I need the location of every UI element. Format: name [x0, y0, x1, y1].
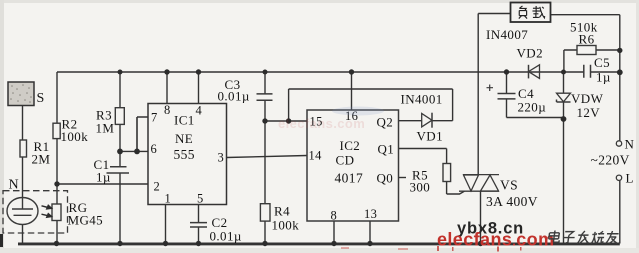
wire Q2 to VD1 — [399, 120, 453, 122]
wire pin8 stub — [166, 72, 168, 104]
wire pin2 line — [57, 183, 148, 185]
wire R3/C1 chain — [119, 72, 121, 244]
red specks — [341, 246, 522, 252]
wire pin4 stub — [198, 72, 200, 104]
svg-text:6: 6 — [151, 142, 158, 156]
svg-text:IC2: IC2 — [340, 138, 361, 153]
svg-text:0.01µ: 0.01µ — [210, 229, 242, 244]
glyph 友 — [606, 231, 619, 244]
svg-text:C5: C5 — [594, 55, 610, 70]
svg-text:N: N — [625, 137, 635, 152]
svg-text:1: 1 — [165, 192, 172, 206]
svg-text:1µ: 1µ — [96, 170, 111, 185]
svg-text:3A 400V: 3A 400V — [486, 194, 538, 209]
faint middle watermark — [278, 116, 365, 131]
svg-text:4: 4 — [196, 104, 203, 118]
wire Q1 to R5 to gate — [399, 149, 465, 195]
wire pin6 stub — [120, 150, 148, 152]
diode VD2 IN4007 — [486, 27, 543, 78]
svg-text:VD1: VD1 — [417, 129, 443, 144]
resistor R2 — [53, 117, 88, 145]
glyph 电 — [548, 231, 560, 243]
triac VS — [459, 175, 538, 209]
zener VDW 12V — [557, 91, 604, 120]
svg-text:NE: NE — [175, 131, 193, 146]
svg-text:IC1: IC1 — [174, 113, 195, 128]
lamp (light source) — [7, 198, 38, 225]
sensor S — [8, 82, 45, 106]
svg-text:elecfans.com: elecfans.com — [437, 230, 554, 250]
resistor R5 — [410, 164, 451, 195]
wire left branch R2/RG — [56, 72, 58, 244]
svg-text:0.01µ: 0.01µ — [218, 89, 250, 104]
glyph 烧 — [591, 231, 605, 243]
svg-text:8: 8 — [331, 209, 338, 223]
resistor R4 — [260, 204, 299, 233]
photoresistor RG MG45 — [42, 200, 104, 228]
op-amp/timer IC1 NE555 — [148, 103, 227, 206]
load box 负载 — [511, 3, 551, 23]
wire load left / triac top — [478, 14, 510, 175]
wire pin7 link — [137, 117, 148, 151]
svg-text:8: 8 — [164, 103, 171, 117]
svg-text:CD: CD — [336, 153, 355, 168]
svg-text:4017: 4017 — [335, 171, 364, 186]
wire S/R1/lamp chain — [22, 106, 24, 244]
wire C3/R4 chain — [264, 72, 266, 244]
wire pin5/C2 chain — [198, 205, 200, 244]
svg-text:300: 300 — [410, 180, 431, 195]
wire top rail — [57, 71, 620, 73]
svg-text:Q0: Q0 — [377, 171, 394, 186]
capacitor C1 — [94, 157, 130, 185]
glyph 发 — [577, 231, 590, 244]
svg-text:2M: 2M — [32, 152, 51, 167]
svg-text:3: 3 — [218, 151, 225, 165]
watermark 电子发烧友 (drawn glyphs) — [548, 231, 619, 244]
wire VDW chain — [563, 72, 565, 244]
wire IC2 pin13 stub — [369, 221, 371, 244]
wire reset loop — [289, 89, 453, 121]
resistor R1 — [20, 139, 50, 167]
svg-text:13: 13 — [364, 207, 377, 221]
capacitor C2 — [190, 215, 242, 244]
glyph 子 — [562, 232, 575, 243]
dashed box N — [3, 178, 68, 234]
wire pin3 to pin14 — [227, 156, 308, 158]
svg-text:5: 5 — [197, 192, 204, 206]
wire R6 branch — [564, 50, 620, 72]
svg-text:S: S — [37, 91, 45, 106]
wire bottom rail — [18, 242, 620, 245]
wire C4 chain — [507, 72, 564, 118]
wire load right — [551, 14, 620, 16]
svg-text:14: 14 — [309, 149, 323, 163]
wire pin1 stub — [165, 205, 167, 244]
capacitor C5 — [584, 55, 611, 85]
svg-text:VDW: VDW — [571, 91, 604, 106]
glyph 载 — [532, 6, 544, 18]
svg-text:12V: 12V — [577, 105, 601, 120]
svg-text:2: 2 — [154, 180, 161, 194]
svg-text:MG45: MG45 — [68, 213, 104, 228]
wire right rail — [619, 15, 621, 244]
wire pin15 line — [265, 120, 307, 122]
terminal N — [616, 137, 634, 152]
svg-text:Q2: Q2 — [377, 115, 394, 130]
svg-text:elecfans.com: elecfans.com — [278, 116, 365, 131]
svg-text:IN4007: IN4007 — [486, 27, 528, 42]
glyph 负 — [519, 6, 527, 19]
svg-text:555: 555 — [174, 147, 195, 162]
svg-text:IN4001: IN4001 — [401, 92, 443, 107]
svg-text:Q1: Q1 — [378, 142, 395, 157]
svg-text:VS: VS — [500, 178, 518, 193]
IC2 CD4017 — [307, 109, 399, 223]
resistor R3 — [96, 108, 125, 136]
terminal L — [616, 171, 634, 186]
svg-text:L: L — [626, 171, 634, 186]
svg-text:220µ: 220µ — [518, 100, 547, 115]
svg-text:100k: 100k — [272, 218, 300, 233]
wire triac bottom — [480, 191, 482, 243]
svg-text:1µ: 1µ — [596, 70, 611, 85]
svg-text:N: N — [9, 178, 20, 193]
svg-text:100k: 100k — [61, 129, 89, 144]
svg-text:~220V: ~220V — [591, 153, 630, 168]
capacitor C3 — [218, 77, 273, 104]
capacitor C4 (electrolytic) — [487, 85, 547, 115]
svg-text:1M: 1M — [96, 121, 115, 136]
wire IC2 pin8 stub — [333, 221, 335, 244]
resistor R6 510k — [570, 20, 598, 55]
svg-text:VD2: VD2 — [517, 46, 543, 61]
svg-text:R6: R6 — [579, 32, 595, 47]
diode VD1 IN4001 — [401, 92, 443, 144]
svg-text:7: 7 — [151, 111, 158, 125]
svg-text:R4: R4 — [274, 204, 290, 219]
wire pin16 stub — [351, 72, 353, 110]
wire Q0 stub — [399, 177, 407, 179]
